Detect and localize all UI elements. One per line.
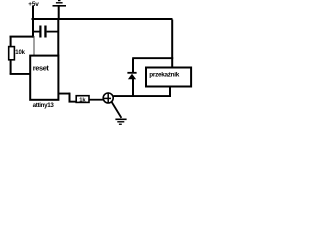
wire relay top lead from rail (171, 20, 173, 68)
IC U1 attiny13 body (30, 56, 58, 100)
wire resistor top lead (10, 37, 12, 47)
svg-text:reset: reset (33, 64, 50, 73)
wire GND net vertical to IC pin (57, 20, 59, 56)
capacitor C1 right lead (47, 31, 58, 33)
svg-text:attiny13: attiny13 (33, 102, 55, 109)
wire IC output vertical step (69, 93, 71, 103)
svg-text:10k: 10k (15, 50, 25, 56)
wire +5v lead (32, 6, 34, 38)
svg-text:1k: 1k (79, 97, 86, 103)
wire to reset pin (10, 73, 31, 75)
wire IC output horizontal (58, 93, 70, 95)
capacitor C1 left lead (34, 31, 40, 33)
wire to base resistor (69, 101, 77, 103)
ground (top, inverted) lead (58, 6, 60, 19)
transistor Q1 emitter diagonal (112, 102, 122, 118)
diode D1 triangle (128, 74, 136, 80)
svg-text:przekaźnik: przekaźnik (149, 71, 179, 78)
relay K1 box (146, 68, 191, 87)
resistor R2 1k body (76, 96, 89, 103)
wire corner to resistor (horizontal) (10, 36, 35, 38)
transistor Q1 circle (103, 93, 113, 103)
wire thin stub to IC top-left pin (34, 36, 35, 56)
transistor Q1 base bar (vertical chord) (107, 92, 109, 103)
wire base lead to transistor (89, 99, 103, 101)
wire resistor bottom lead (10, 60, 12, 74)
diode D1 cathode lead (132, 59, 134, 73)
wire top +5V rail (32, 18, 173, 20)
wire diode cathode horizontal (132, 57, 173, 59)
wire collector to relay (114, 95, 172, 97)
ground (bottom) bars (115, 119, 126, 121)
resistor R1 10k body (9, 47, 15, 60)
diode D1 anode lead (132, 79, 134, 96)
capacitor C1 plates (39, 26, 41, 38)
ground (top, inverted) bars (53, 5, 67, 7)
transistor Q1 horizontal chord (103, 97, 111, 99)
wire relay bottom lead (169, 86, 171, 96)
diode D1 cathode bar (127, 72, 136, 74)
